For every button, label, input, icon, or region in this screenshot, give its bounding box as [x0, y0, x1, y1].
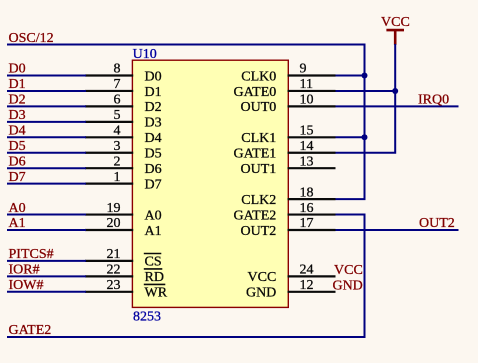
wire: net GATE2 bottom run and vertical up to pin 16 [7, 215, 365, 337]
wire: CLK1 pin 15 to OSC/12 vertical [336, 136, 366, 138]
svg-text:GND: GND [246, 286, 276, 301]
pin 15 (CLK1) of U10, right side [241, 124, 335, 147]
pin 4 (D4) of U10, left side [85, 124, 162, 147]
svg-text:D7: D7 [145, 177, 162, 192]
pin 9 (CLK0) of U10, right side [241, 62, 335, 85]
wire: GATE0 pin 11 to VCC vertical [336, 90, 397, 92]
power symbol VCC stem [394, 30, 397, 45]
svg-text:15: 15 [300, 124, 314, 139]
junction: OSC/12 at CLK0 [362, 73, 368, 79]
svg-text:23: 23 [107, 278, 121, 293]
svg-text:3: 3 [114, 139, 121, 154]
wire: CLK2 pin 18 to OSC/12 vertical end [336, 198, 366, 200]
svg-text:11: 11 [300, 77, 313, 92]
svg-text:22: 22 [107, 263, 121, 278]
wire: net D7 from label to pin [7, 183, 86, 185]
svg-text:VCC: VCC [334, 263, 363, 278]
IC U10 (8253) body [132, 60, 288, 307]
junction: VCC line at GATE0 [392, 88, 398, 94]
svg-text:IRQ0: IRQ0 [418, 93, 449, 108]
wire: net A0 from label to pin [7, 214, 86, 216]
svg-text:CLK1: CLK1 [241, 131, 276, 146]
pin 19 (A0) of U10, left side [85, 201, 162, 224]
pin 12 (GND) of U10, right side [246, 278, 336, 301]
svg-text:D2: D2 [145, 100, 162, 115]
svg-text:D0: D0 [145, 69, 162, 84]
pin 11 (GATE0) of U10, right side [234, 77, 336, 100]
svg-text:U10: U10 [133, 47, 157, 62]
svg-text:PITCS#: PITCS# [9, 247, 54, 262]
svg-text:14: 14 [300, 139, 314, 154]
pin 22 (RD) of U10, left side [85, 263, 164, 286]
svg-text:10: 10 [300, 93, 314, 108]
pin 8 (D0) of U10, left side [85, 62, 162, 85]
svg-text:A1: A1 [9, 216, 26, 231]
power symbol VCC bar [386, 29, 404, 32]
svg-text:D3: D3 [9, 108, 26, 123]
svg-text:D0: D0 [9, 62, 26, 77]
pin 18 (CLK2) of U10, right side [241, 185, 335, 208]
junction: OSC/12 at CLK1 [362, 134, 368, 140]
svg-text:16: 16 [300, 201, 314, 216]
wire: net OSC/12 horizontal top run and vertical drop to CLK pins [7, 45, 365, 200]
wire: CLK0 pin 9 to OSC/12 vertical [336, 75, 366, 77]
svg-text:OUT0: OUT0 [241, 100, 277, 115]
svg-text:GND: GND [332, 278, 362, 293]
svg-text:GATE0: GATE0 [234, 85, 277, 100]
svg-text:VCC: VCC [248, 270, 277, 285]
wire: net A1 from label to pin [7, 229, 86, 231]
svg-text:1: 1 [114, 170, 121, 185]
wire: net IOW# from label to pin [7, 291, 86, 293]
wire: net D2 from label to pin [7, 105, 86, 107]
pin 1 (D7) of U10, left side [85, 170, 162, 193]
pin 24 (VCC) of U10, right side [248, 263, 336, 286]
svg-text:RD: RD [145, 270, 164, 285]
svg-text:IOW#: IOW# [9, 278, 44, 293]
wire: net D5 from label to pin [7, 152, 86, 154]
svg-text:OUT1: OUT1 [241, 162, 277, 177]
svg-text:D4: D4 [145, 131, 162, 146]
pin 14 (GATE1) of U10, right side [234, 139, 336, 162]
pin 21 (CS) of U10, left side [85, 247, 162, 270]
svg-text:GATE1: GATE1 [234, 147, 277, 162]
svg-text:GATE2: GATE2 [9, 323, 52, 338]
wire: VCC vertical down to GATE1 [336, 44, 396, 153]
wire: net D1 from label to pin [7, 90, 86, 92]
svg-text:D6: D6 [9, 154, 26, 169]
svg-text:2: 2 [114, 154, 121, 169]
svg-text:VCC: VCC [381, 15, 410, 30]
svg-text:CLK2: CLK2 [241, 193, 276, 208]
wire: net D3 from label to pin [7, 121, 86, 123]
wire: net IOR# from label to pin [7, 275, 86, 277]
pin 16 (GATE2) of U10, right side [234, 201, 336, 224]
pin 17 (OUT2) of U10, right side [241, 216, 336, 239]
svg-text:IOR#: IOR# [9, 263, 40, 278]
svg-text:D7: D7 [9, 170, 26, 185]
svg-text:D1: D1 [145, 85, 162, 100]
pin 2 (D6) of U10, left side [85, 154, 162, 177]
wire: net D0 from label to pin [7, 75, 86, 77]
svg-text:OUT2: OUT2 [241, 224, 277, 239]
svg-text:9: 9 [300, 62, 307, 77]
svg-text:19: 19 [107, 201, 121, 216]
svg-text:4: 4 [114, 124, 121, 139]
svg-text:CLK0: CLK0 [241, 69, 276, 84]
svg-text:7: 7 [114, 77, 121, 92]
svg-text:5: 5 [114, 108, 121, 123]
pin 13 (OUT1) of U10, right side [241, 154, 336, 177]
pin 5 (D3) of U10, left side [85, 108, 162, 131]
svg-text:8253: 8253 [133, 309, 161, 324]
svg-text:D6: D6 [145, 162, 162, 177]
svg-text:20: 20 [107, 216, 121, 231]
wire: net OUT2 from pin 17 to right [336, 229, 459, 231]
svg-text:A0: A0 [9, 201, 26, 216]
svg-text:A1: A1 [145, 224, 162, 239]
svg-text:12: 12 [300, 278, 314, 293]
pin 20 (A1) of U10, left side [85, 216, 162, 239]
svg-text:18: 18 [300, 185, 314, 200]
svg-text:17: 17 [300, 216, 314, 231]
svg-text:D3: D3 [145, 116, 162, 131]
svg-text:D2: D2 [9, 93, 26, 108]
pin 7 (D1) of U10, left side [85, 77, 162, 100]
svg-text:D4: D4 [9, 124, 26, 139]
wire: net D4 from label to pin [7, 136, 86, 138]
pin 10 (OUT0) of U10, right side [241, 93, 336, 116]
pin 3 (D5) of U10, left side [85, 139, 162, 162]
svg-text:21: 21 [107, 247, 121, 262]
svg-text:13: 13 [300, 154, 314, 169]
pin 23 (WR) of U10, left side [85, 278, 168, 301]
svg-text:6: 6 [114, 93, 121, 108]
svg-text:D5: D5 [145, 147, 162, 162]
svg-text:OUT2: OUT2 [419, 216, 455, 231]
svg-text:24: 24 [300, 263, 314, 278]
wire: net D6 from label to pin [7, 167, 86, 169]
svg-text:D1: D1 [9, 77, 26, 92]
svg-text:GATE2: GATE2 [234, 208, 277, 223]
svg-text:8: 8 [114, 62, 121, 77]
svg-text:WR: WR [145, 286, 168, 301]
pin 6 (D2) of U10, left side [85, 93, 162, 116]
svg-text:A0: A0 [145, 208, 162, 223]
svg-text:CS: CS [145, 255, 162, 270]
wire: net IRQ0 from OUT0 pin 10 to right [336, 105, 459, 107]
svg-text:D5: D5 [9, 139, 26, 154]
wire: net PITCS# from label to pin [7, 260, 86, 262]
